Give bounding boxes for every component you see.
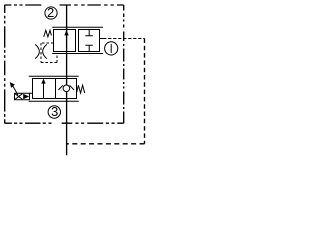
port 2 label circle bbox=[45, 7, 57, 19]
enclosure phantom border bottom bbox=[4, 122, 123, 124]
pilot line dashed to port1 side bbox=[67, 39, 145, 144]
orifice restriction arcs bbox=[35, 44, 39, 58]
valve V1 blocked port top T bbox=[85, 30, 93, 36]
valve V2 flow arrow head bbox=[41, 79, 45, 84]
valve V1 pilot stub bbox=[100, 38, 104, 40]
valve V1 flow arrow bbox=[64, 30, 68, 35]
valve V1 bottom rail (infinite positioning) bbox=[52, 53, 103, 55]
pilot drain line with orifice (dashed loop) bbox=[41, 43, 57, 63]
valve V2 spring bbox=[77, 85, 85, 93]
solenoid X symbol bbox=[15, 94, 22, 100]
check valve seat right bbox=[70, 85, 74, 90]
enclosure phantom border top bbox=[4, 4, 123, 6]
valve V2 left position box bbox=[33, 79, 56, 99]
valve V1 left position box bbox=[54, 30, 76, 52]
port 3 digit bbox=[51, 104, 58, 119]
valve V2 flow arrow line bbox=[43, 80, 45, 99]
valve V1 spring bbox=[44, 30, 52, 37]
check valve ball bbox=[63, 85, 70, 92]
port 2 digit bbox=[47, 5, 54, 20]
proportional adjustment arrow head bbox=[10, 82, 15, 88]
valve V1 top rail (infinite positioning) bbox=[52, 26, 103, 28]
valve V1 blocked port bottom T bbox=[85, 45, 93, 51]
check valve seat left bbox=[58, 85, 63, 90]
valve V1 right position box bbox=[79, 30, 100, 52]
proportional adjustment arrow shaft bbox=[13, 86, 18, 95]
solenoid triangle bbox=[23, 94, 29, 99]
valve V2 top rail bbox=[29, 75, 79, 77]
valve V2 right position box bbox=[56, 79, 77, 99]
port 1 label circle bbox=[105, 42, 118, 55]
port 1 digit bbox=[110, 44, 112, 53]
enclosure phantom border left bbox=[4, 5, 6, 123]
valve V2 bottom rail bbox=[29, 100, 79, 102]
wire: main line port2 to port3 bbox=[66, 5, 68, 156]
enclosure phantom border right bbox=[123, 5, 125, 123]
port 3 label circle bbox=[48, 106, 60, 118]
proportional solenoid box bbox=[15, 93, 30, 100]
